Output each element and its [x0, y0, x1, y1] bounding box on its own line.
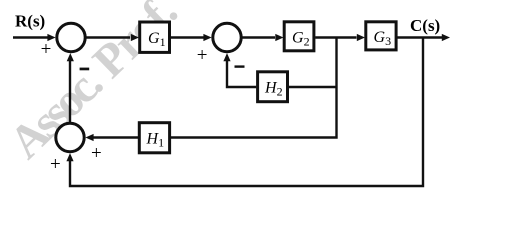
- arrow into summer 2: [203, 34, 211, 41]
- arrow into summer 3 from H1: [85, 134, 93, 141]
- wire: summer 3 up to summer 1: [69, 61, 71, 123]
- arrow up into summer 2 from H2: [223, 53, 230, 61]
- arrow output C(s): [442, 34, 450, 41]
- wire: summer 1 to G1: [87, 36, 131, 38]
- wire: G2 to G3: [315, 36, 356, 38]
- svg-text:+: +: [197, 45, 208, 66]
- wire: H1 output to summer 3: [93, 136, 138, 138]
- svg-text:R(s): R(s): [15, 12, 45, 31]
- wire: summer 2 to G2: [243, 36, 276, 38]
- block H2: [258, 72, 288, 102]
- arrow into summer 1: [47, 34, 55, 41]
- arrow into G2: [275, 34, 283, 41]
- sign − at summer 1: [80, 68, 90, 71]
- wire: branch into H2 input: [289, 86, 337, 88]
- wire: H2 output up into summer 2: [227, 61, 256, 87]
- wire: node after G2 down to H1 level: [171, 38, 337, 138]
- summer 3: [56, 123, 84, 151]
- arrow up into summer 3 from bottom feedback: [66, 153, 73, 161]
- summer 2: [213, 23, 241, 51]
- sign − at summer 2: [235, 65, 245, 67]
- svg-text:+: +: [50, 154, 61, 175]
- arrow into G1: [131, 34, 139, 41]
- block G3: [366, 22, 396, 50]
- block G2: [284, 22, 314, 51]
- block H1: [139, 123, 169, 153]
- block G1: [140, 22, 170, 52]
- arrow into G3: [357, 34, 365, 41]
- watermark: [0, 0, 187, 169]
- summer 1: [57, 23, 85, 51]
- svg-text:C(s): C(s): [410, 16, 440, 35]
- arrowheads: [47, 34, 450, 161]
- svg-text:+: +: [91, 143, 102, 164]
- arrow up into summer 1 from summer 3: [67, 53, 74, 61]
- svg-text:+: +: [41, 39, 52, 60]
- wire: G3 to output C(s): [397, 36, 442, 38]
- wire: R(s) input to summer 1: [13, 36, 48, 38]
- wire: output node down and across bottom to summer 3: [70, 38, 423, 187]
- wire: G1 to summer 2: [171, 36, 204, 38]
